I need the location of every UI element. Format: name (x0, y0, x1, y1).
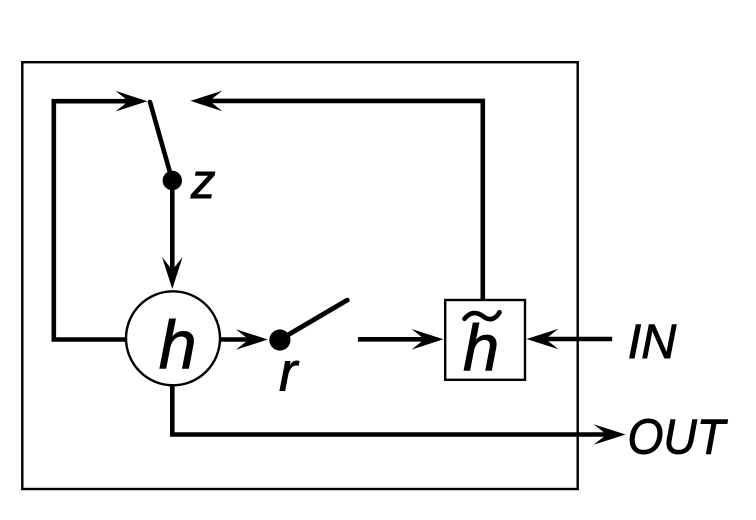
arrowhead pointing left into z switch (190, 91, 222, 112)
wire: IN into h-tilde box (542, 337, 612, 342)
wire: r switch to h-tilde box (358, 337, 428, 342)
svg-text:h: h (159, 307, 197, 383)
svg-text:z: z (190, 155, 216, 209)
arrowhead pointing left into box (527, 329, 559, 350)
arrowhead pointing right to OUT (594, 424, 626, 445)
wire: z down into h (170, 181, 175, 274)
arrowhead into h-tilde box (412, 329, 444, 350)
arrowhead into z switch pivot (116, 91, 148, 112)
arrowhead into r node (236, 329, 268, 350)
svg-text:h: h (463, 311, 499, 384)
tilde over h (465, 312, 500, 319)
svg-text:r: r (279, 340, 300, 402)
node z dot (163, 171, 182, 190)
outer enclosure rectangle (22, 62, 577, 489)
candidate activation h-tilde box (445, 300, 525, 380)
svg-text:OUT: OUT (628, 411, 728, 465)
wire: h down and right to OUT (172, 384, 610, 435)
svg-text:IN: IN (628, 316, 677, 369)
node r dot (269, 329, 290, 350)
wire: left recurrent wire (h left side up to top, right to z switch) (54, 101, 130, 339)
switch z lever (150, 102, 172, 181)
arrowhead down into h circle (162, 257, 183, 289)
wire: h to r switch (220, 337, 252, 342)
state node h circle (126, 291, 220, 385)
switch r lever (281, 300, 347, 339)
wire: top feedback from h-tilde box to z switch (206, 101, 483, 300)
